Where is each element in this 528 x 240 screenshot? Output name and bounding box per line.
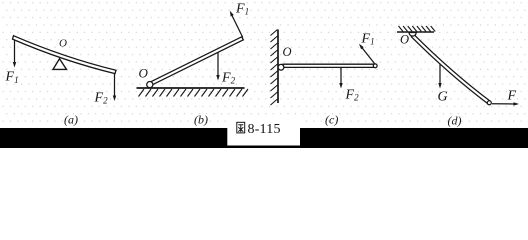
rod end rounded cap (c): [373, 64, 377, 68]
svg-text:O: O: [283, 45, 292, 59]
svg-text:F: F: [507, 88, 517, 103]
force arrow F1 (c): [361, 47, 375, 64]
ceiling line (d): [397, 31, 434, 33]
ceiling hatching (d): [399, 26, 436, 32]
lever rod (c): [283, 64, 375, 67]
fulcrum triangle (a): [53, 59, 67, 70]
bottom black bar: [0, 128, 528, 148]
page background: [0, 0, 528, 148]
wall line (c): [277, 30, 279, 104]
svg-text:(b): (b): [194, 113, 208, 127]
svg-text:(a): (a): [64, 113, 78, 127]
CJK glyph 图 (drawn): [237, 122, 245, 133]
force arrow F2 (b): [217, 53, 219, 77]
lever rod (d): [411, 34, 490, 104]
pivot rounded end (b): [147, 82, 153, 88]
force arrow F1 (b): [232, 15, 243, 38]
force arrow F (d): [492, 103, 515, 105]
force arrow F2 (c): [340, 67, 342, 84]
ground line (b): [137, 87, 245, 89]
halftone dot texture: [0, 0, 528, 128]
svg-text:(c): (c): [325, 113, 338, 127]
caption white box: [227, 120, 300, 146]
svg-text:O: O: [59, 38, 67, 50]
force arrow F2 (a): [114, 74, 116, 97]
pivot circle (c): [278, 64, 284, 70]
pivot semicircle (d): [409, 33, 416, 37]
svg-text:O: O: [139, 66, 149, 81]
ground hatching (b): [139, 89, 249, 97]
force arrow F1 (a): [14, 41, 16, 64]
wall hatching (c): [271, 30, 278, 106]
svg-text:G: G: [438, 90, 448, 105]
force arrow G (d): [439, 64, 441, 85]
svg-text:(d): (d): [448, 114, 462, 128]
lever rod (a): [13, 36, 117, 74]
svg-text:O: O: [400, 33, 409, 47]
rod end rounded cap (d): [487, 101, 491, 105]
svg-text:8-115: 8-115: [248, 122, 281, 137]
lever rod (b): [150, 37, 244, 86]
